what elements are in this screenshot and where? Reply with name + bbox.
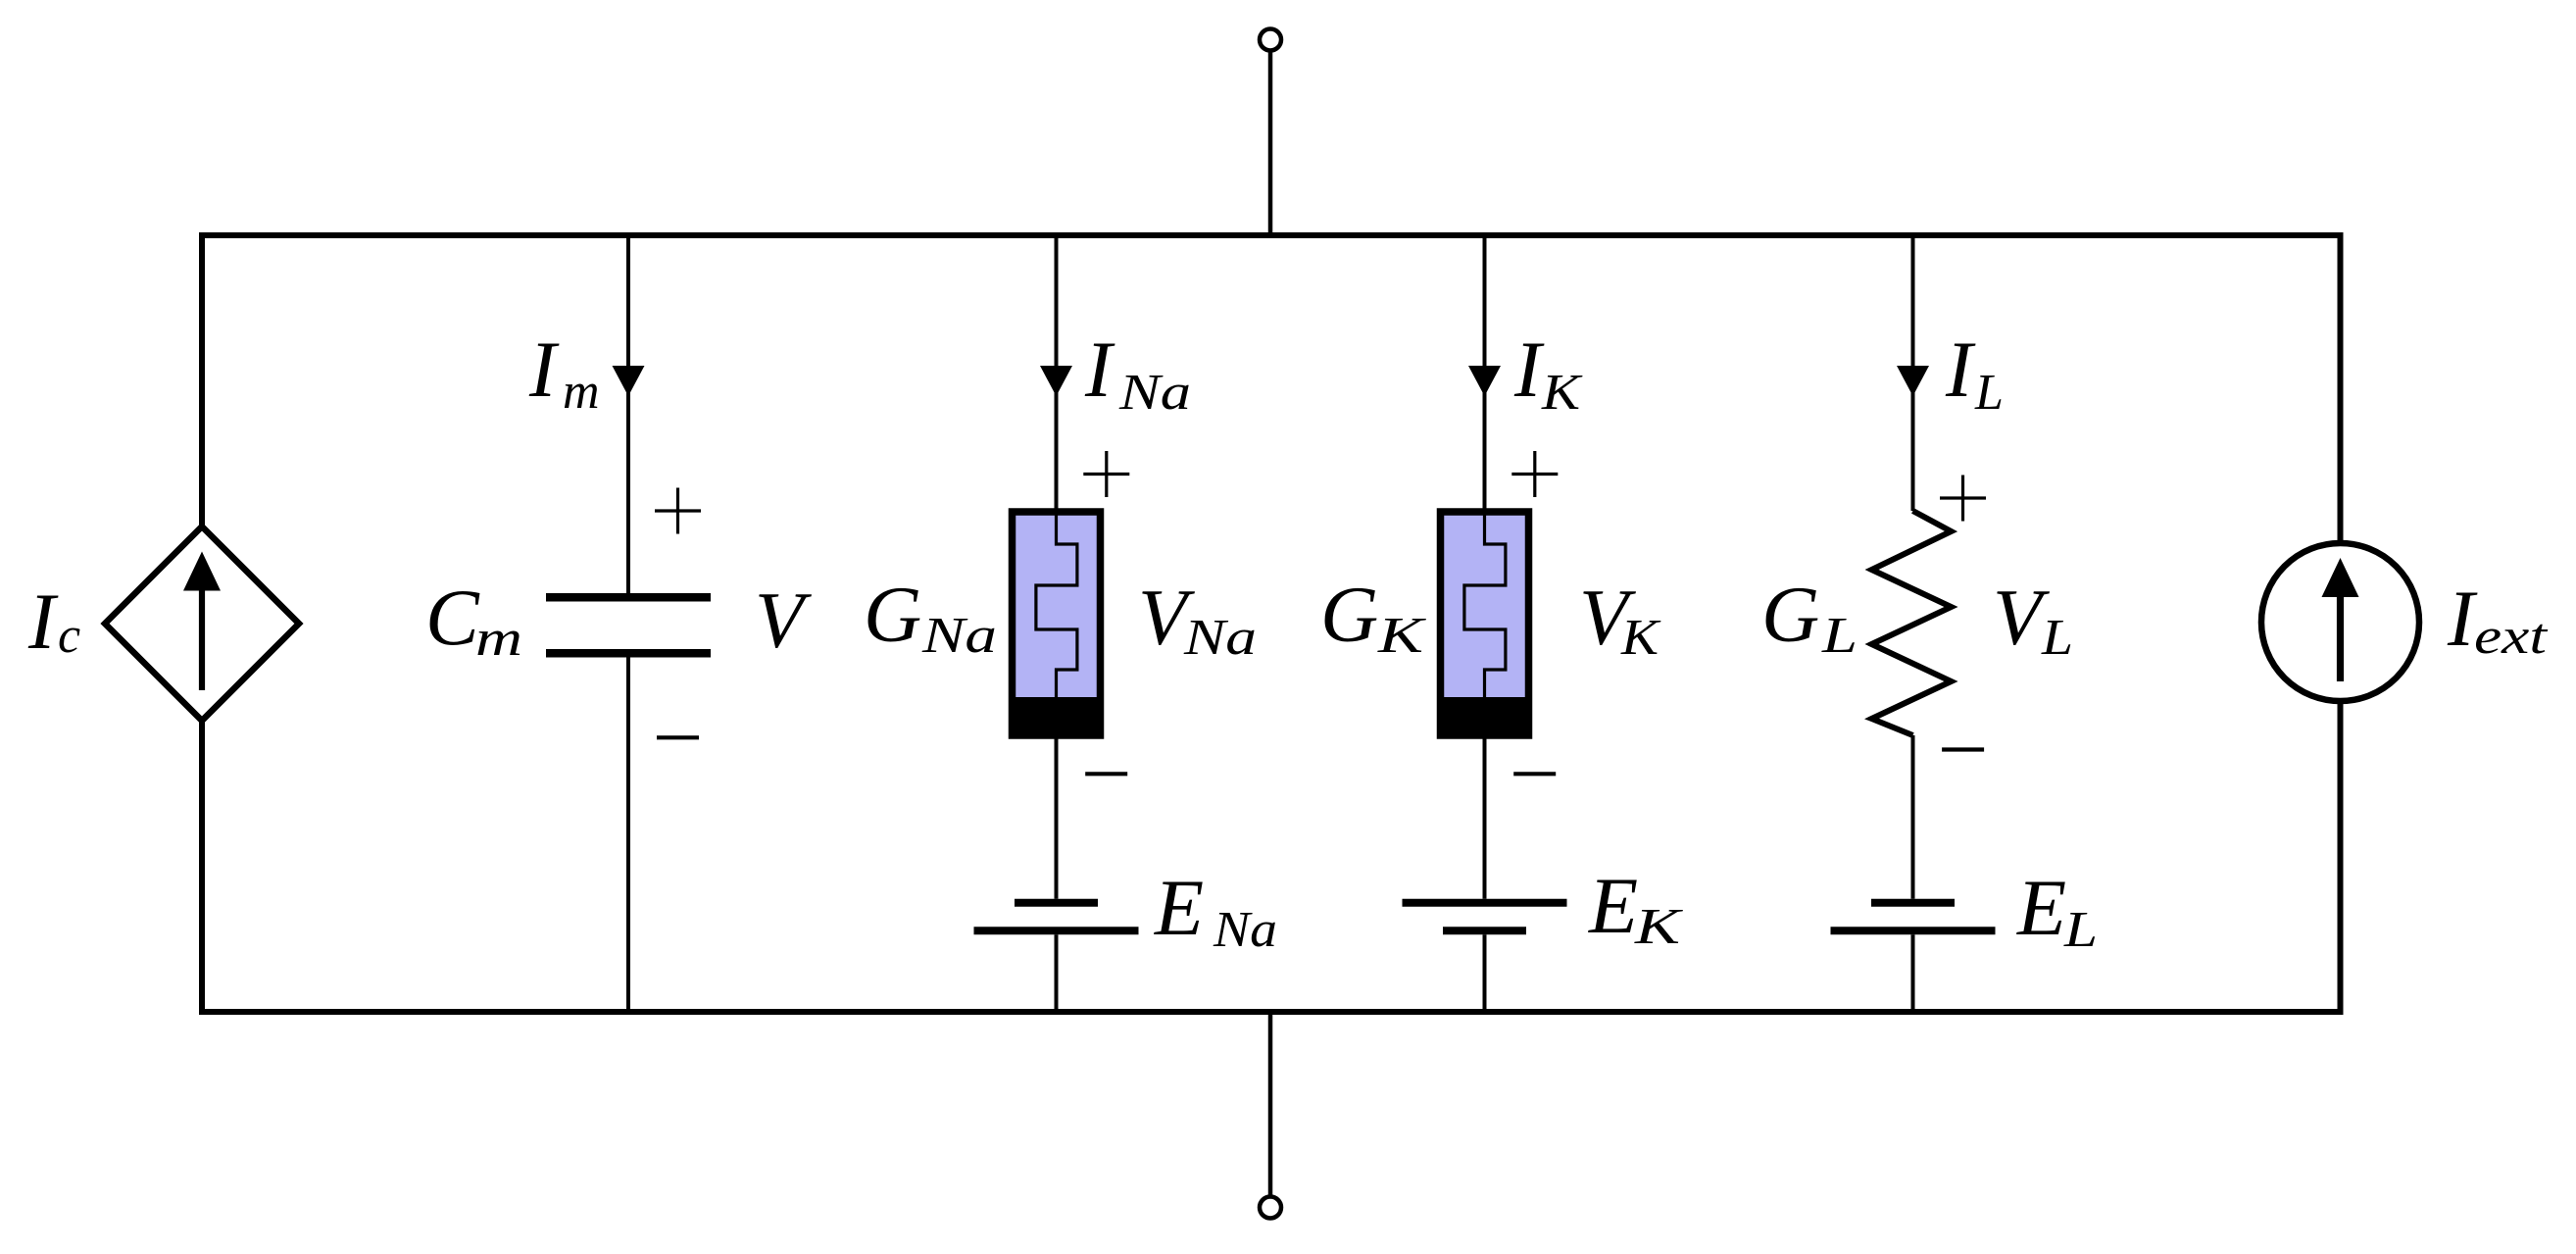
svg-text:I: I <box>1945 325 1976 414</box>
svg-text:I: I <box>1084 325 1115 414</box>
svg-text:K: K <box>1634 899 1683 955</box>
svg-text:Na: Na <box>1213 902 1277 958</box>
svg-text:c: c <box>58 608 80 664</box>
svg-text:G: G <box>1320 570 1378 659</box>
svg-text:K: K <box>1541 365 1583 421</box>
svg-text:G: G <box>864 570 921 659</box>
svg-text:I: I <box>1513 325 1545 414</box>
svg-text:ext: ext <box>2474 609 2549 665</box>
svg-text:E: E <box>2016 863 2066 952</box>
svg-text:L: L <box>1821 608 1858 664</box>
svg-text:m: m <box>475 611 522 667</box>
svg-text:V: V <box>755 576 812 665</box>
svg-text:L: L <box>1974 365 2004 421</box>
svg-text:L: L <box>2063 902 2098 958</box>
svg-text:Na: Na <box>1183 610 1257 666</box>
svg-text:Na: Na <box>921 608 997 664</box>
svg-text:K: K <box>1377 608 1426 664</box>
svg-text:E: E <box>1154 863 1204 952</box>
svg-text:I: I <box>27 577 59 666</box>
svg-text:L: L <box>2041 610 2073 666</box>
svg-text:I: I <box>528 325 560 414</box>
svg-text:K: K <box>1620 610 1661 666</box>
svg-text:m: m <box>563 364 600 420</box>
svg-text:Na: Na <box>1118 365 1191 421</box>
svg-text:G: G <box>1761 570 1819 659</box>
svg-text:C: C <box>425 573 480 662</box>
svg-text:E: E <box>1588 861 1638 950</box>
